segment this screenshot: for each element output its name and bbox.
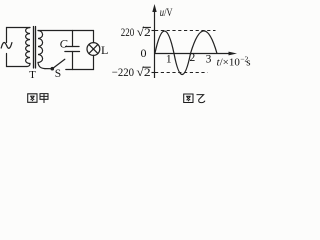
svg-text:C: C bbox=[60, 39, 68, 51]
svg-text:u/V: u/V bbox=[160, 7, 173, 19]
wire capacitor bottom lead bbox=[72, 52, 74, 70]
sine curve u(t) bbox=[155, 31, 217, 75]
svg-text:S: S bbox=[55, 68, 61, 80]
switch S lever bbox=[52, 59, 65, 68]
wire secondary top bbox=[38, 30, 94, 32]
wire primary loop top bbox=[7, 28, 31, 43]
svg-text:0: 0 bbox=[141, 46, 147, 60]
wire secondary bottom lead bbox=[45, 68, 52, 70]
wire bottom right loop bbox=[66, 55, 94, 69]
capacitor C plates bbox=[65, 47, 80, 52]
lamp L cross bbox=[89, 45, 98, 54]
transformer T core bbox=[34, 27, 36, 69]
dashed line -220sqrt2 bbox=[152, 72, 155, 74]
svg-text:−220: −220 bbox=[112, 65, 134, 79]
ac source ~ bbox=[1, 42, 12, 48]
x-axis t with arrow bbox=[155, 53, 230, 55]
dashed line +220sqrt2 bbox=[152, 30, 155, 32]
svg-text:t/×10: t/×10 bbox=[217, 56, 241, 68]
svg-text:T: T bbox=[29, 69, 36, 81]
caption 图甲 bbox=[28, 94, 48, 103]
transformer T secondary winding bbox=[38, 31, 45, 69]
svg-text:1: 1 bbox=[166, 53, 172, 65]
svg-text:s: s bbox=[246, 56, 250, 68]
wire capacitor top lead bbox=[72, 31, 74, 47]
node switch pivot junction bbox=[51, 67, 55, 71]
svg-text:220: 220 bbox=[121, 25, 135, 39]
caption 图乙 bbox=[184, 94, 205, 103]
svg-text:L: L bbox=[101, 43, 108, 57]
wire primary loop bottom bbox=[7, 54, 28, 67]
svg-text:3: 3 bbox=[206, 53, 212, 65]
y-axis u/V with arrow bbox=[154, 11, 156, 79]
lamp L circle bbox=[87, 43, 100, 56]
wire lamp top lead bbox=[93, 31, 95, 43]
transformer T primary winding bbox=[26, 28, 30, 67]
